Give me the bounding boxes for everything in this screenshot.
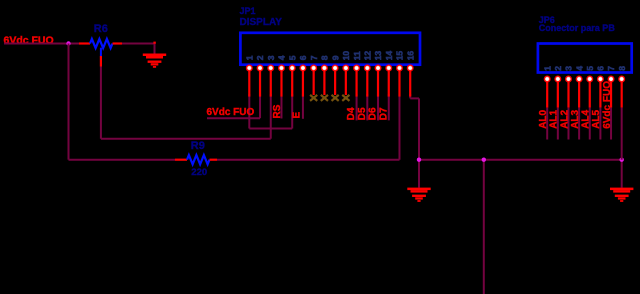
svg-text:RS: RS (272, 104, 283, 118)
svg-text:D5: D5 (357, 107, 368, 120)
svg-text:220: 220 (191, 167, 207, 178)
svg-text:14: 14 (384, 51, 394, 61)
svg-text:1: 1 (245, 55, 255, 60)
svg-text:13: 13 (373, 51, 383, 61)
svg-text:4: 4 (574, 66, 584, 71)
svg-text:AL2: AL2 (559, 109, 570, 128)
svg-text:3: 3 (564, 66, 574, 71)
svg-text:5: 5 (287, 55, 297, 60)
svg-text:5: 5 (585, 66, 595, 71)
svg-text:9: 9 (330, 55, 340, 60)
svg-text:E: E (291, 112, 302, 119)
svg-text:16: 16 (405, 51, 415, 61)
svg-text:8: 8 (320, 55, 330, 60)
svg-text:R9: R9 (191, 140, 205, 152)
svg-text:Conector para PB: Conector para PB (539, 23, 616, 33)
svg-text:AL5: AL5 (591, 109, 602, 128)
svg-text:R6: R6 (94, 23, 108, 35)
svg-text:11: 11 (352, 51, 362, 60)
svg-text:D6: D6 (368, 107, 379, 120)
svg-text:3: 3 (266, 55, 276, 60)
svg-text:6: 6 (298, 55, 308, 60)
svg-text:AL4: AL4 (581, 109, 592, 128)
svg-text:6: 6 (596, 66, 606, 71)
svg-text:7: 7 (309, 55, 319, 60)
svg-text:4: 4 (277, 55, 287, 60)
svg-text:2: 2 (255, 55, 265, 60)
svg-text:AL1: AL1 (549, 109, 560, 128)
svg-text:D4: D4 (346, 107, 357, 120)
svg-text:D7: D7 (378, 107, 389, 120)
svg-text:12: 12 (362, 51, 372, 61)
svg-text:7: 7 (606, 66, 616, 71)
svg-text:6Vdc FUO: 6Vdc FUO (207, 107, 255, 118)
svg-text:2: 2 (553, 66, 563, 71)
svg-text:DISPLAY: DISPLAY (240, 17, 283, 28)
svg-text:8: 8 (617, 66, 627, 71)
svg-text:1: 1 (542, 66, 552, 71)
svg-text:JP1: JP1 (240, 6, 256, 16)
svg-text:6Vdc FUO: 6Vdc FUO (602, 81, 613, 129)
svg-text:AL3: AL3 (570, 109, 581, 128)
svg-text:15: 15 (395, 51, 405, 61)
svg-text:6Vdc FUO: 6Vdc FUO (4, 35, 54, 47)
svg-text:AL0: AL0 (538, 109, 549, 128)
svg-text:10: 10 (341, 51, 351, 61)
